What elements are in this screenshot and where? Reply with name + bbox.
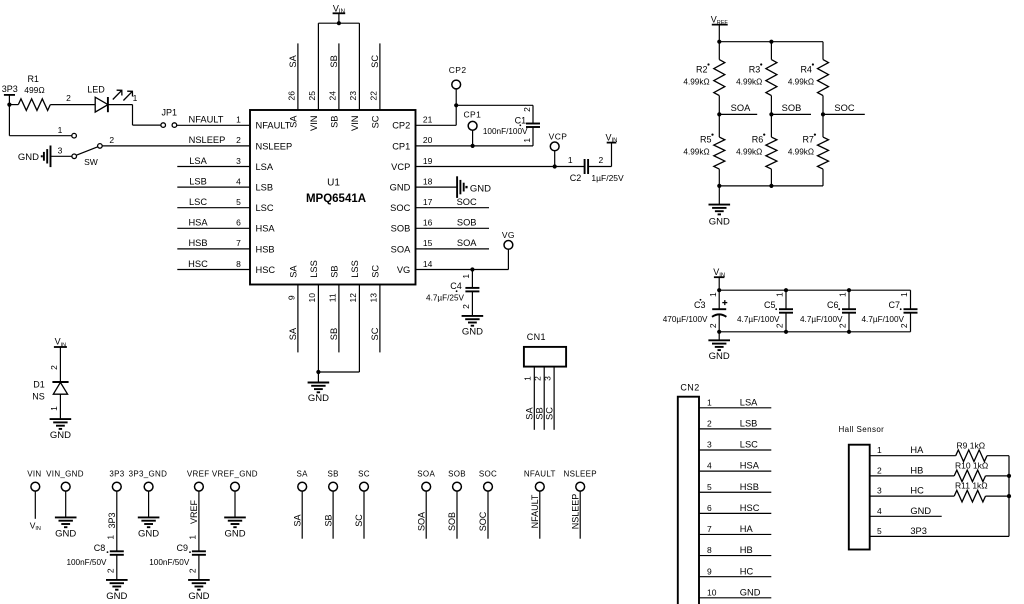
U1 pin11 SB stub <box>338 285 340 353</box>
node VIN junction above U1 <box>337 21 341 25</box>
svg-text:HSB: HSB <box>740 482 759 492</box>
switch SW pin1 contact <box>72 133 77 138</box>
svg-text:R1: R1 <box>27 74 39 84</box>
svg-text:R5: R5 <box>700 134 712 144</box>
wire U1 pin16 SOB stub <box>416 227 490 229</box>
wire R10 to 3P3 bus <box>986 475 1010 477</box>
U1 pin13 SC stub <box>379 285 381 353</box>
svg-text:HB: HB <box>910 465 923 475</box>
svg-text:14: 14 <box>423 259 433 269</box>
svg-text:2: 2 <box>522 107 532 112</box>
svg-text:SC: SC <box>370 327 380 340</box>
svg-text:NS: NS <box>32 391 45 401</box>
U1 pin12 LSS stub <box>358 285 360 373</box>
svg-text:17: 17 <box>423 197 433 207</box>
LED arrow 1 <box>113 90 122 99</box>
LED <box>95 97 108 112</box>
connector CN2 pin1 LSA <box>699 407 771 409</box>
svg-text:1: 1 <box>838 292 848 297</box>
svg-text:CP1: CP1 <box>464 110 482 120</box>
connector CN2 pin8 HB <box>699 555 771 557</box>
resistor R9 <box>956 450 987 462</box>
svg-text:MPQ6541A: MPQ6541A <box>306 193 366 205</box>
wire net HSB to U1 pin7 <box>177 248 250 250</box>
svg-text:2: 2 <box>188 568 198 573</box>
svg-text:2: 2 <box>236 135 241 145</box>
connector CN2 pin5 HSB <box>699 491 771 493</box>
resistor R6 <box>770 114 772 137</box>
svg-text:Hall Sensor: Hall Sensor <box>839 425 885 434</box>
svg-text:SB: SB <box>329 265 339 277</box>
connector CN2 pin10 GND <box>699 597 771 599</box>
svg-text:SOC: SOC <box>834 103 854 113</box>
svg-text:100nF/100V: 100nF/100V <box>483 127 528 136</box>
svg-text:VREF: VREF <box>189 500 199 525</box>
svg-text:GND: GND <box>55 529 76 540</box>
svg-text:3: 3 <box>58 146 63 156</box>
connector Hall pin4 GND stub <box>870 515 942 517</box>
svg-text:SA: SA <box>288 265 298 278</box>
svg-text:HSC: HSC <box>740 503 760 513</box>
svg-text:4.99kΩ: 4.99kΩ <box>736 77 762 86</box>
svg-text:GND: GND <box>740 587 761 597</box>
svg-text:GND: GND <box>18 152 39 163</box>
svg-text:GND: GND <box>224 529 245 540</box>
wire U1 pin14 VG <box>416 269 509 271</box>
svg-text:D1: D1 <box>33 380 45 390</box>
node LSS junction <box>316 370 320 374</box>
svg-text:SB: SB <box>327 469 338 478</box>
wire U1 pin15 SOA stub <box>416 248 490 250</box>
svg-text:U1: U1 <box>327 177 340 188</box>
svg-text:C5: C5 <box>764 300 776 310</box>
capacitor C3 polarized <box>718 290 720 309</box>
svg-text:VCP: VCP <box>391 162 410 172</box>
ground below U1 <box>317 372 319 383</box>
ground below divider <box>718 186 720 205</box>
svg-text:3P3: 3P3 <box>910 526 927 536</box>
svg-text:NSLEEP: NSLEEP <box>564 469 597 478</box>
svg-text:GND: GND <box>188 591 209 602</box>
svg-text:1: 1 <box>877 445 882 455</box>
svg-text:LSS: LSS <box>309 260 319 278</box>
svg-text:1: 1 <box>49 406 59 411</box>
connector CN1 pin3 SC <box>553 367 555 430</box>
svg-text:3: 3 <box>236 156 241 166</box>
svg-text:HSB: HSB <box>256 244 275 254</box>
wire CP2 to C1 <box>456 104 533 106</box>
svg-text:LSA: LSA <box>740 397 758 407</box>
svg-text:CN1: CN1 <box>527 332 546 342</box>
connector Hall pin3 HC wire <box>870 495 955 497</box>
svg-text:SB: SB <box>534 407 544 419</box>
node SOC divider <box>821 112 825 116</box>
wire top rail of divider <box>719 41 823 43</box>
svg-text:8: 8 <box>707 545 712 555</box>
capacitor C9 <box>192 550 206 552</box>
svg-text:C9: C9 <box>176 543 188 553</box>
svg-text:SA: SA <box>288 54 298 67</box>
svg-text:2: 2 <box>708 323 718 328</box>
svg-text:SOA: SOA <box>391 244 411 254</box>
svg-text:HSB: HSB <box>188 238 207 248</box>
svg-text:SOA: SOA <box>416 512 426 531</box>
svg-text:LSB: LSB <box>740 419 758 429</box>
diode D1 <box>52 381 68 383</box>
svg-text:470µF/100V: 470µF/100V <box>663 315 708 324</box>
svg-text:SOB: SOB <box>457 218 477 228</box>
svg-text:19: 19 <box>423 156 433 166</box>
wire cap bank top rail <box>719 289 910 291</box>
resistor R2 <box>718 42 720 60</box>
svg-text:HSC: HSC <box>256 265 276 275</box>
svg-text:R9 1kΩ: R9 1kΩ <box>957 440 986 450</box>
svg-text:R6: R6 <box>752 134 764 144</box>
svg-text:GND: GND <box>709 216 730 227</box>
wire bottom rail of divider <box>719 185 823 187</box>
svg-text:2: 2 <box>899 323 909 328</box>
svg-text:2: 2 <box>599 155 604 165</box>
svg-text:LED: LED <box>87 84 105 94</box>
wire C2 to VIN <box>588 166 611 168</box>
node VG junction <box>470 267 474 271</box>
svg-text:100nF/50V: 100nF/50V <box>66 558 107 567</box>
svg-text:GND: GND <box>470 183 491 194</box>
svg-text:NSLEEP: NSLEEP <box>256 141 293 151</box>
svg-text:CP2: CP2 <box>392 121 410 131</box>
connector CN2 pin7 HA <box>699 533 771 535</box>
svg-text:4.99kΩ: 4.99kΩ <box>736 148 762 157</box>
svg-text:SC: SC <box>370 115 380 128</box>
resistor R1 <box>9 104 18 106</box>
connector CN2 pin6 HSC <box>699 512 771 514</box>
svg-text:NSLEEP: NSLEEP <box>189 135 226 145</box>
wire VIN to D1 pin2 <box>59 347 61 382</box>
svg-text:2: 2 <box>461 304 471 309</box>
svg-text:LSS: LSS <box>350 260 360 278</box>
svg-text:SOC: SOC <box>457 197 477 207</box>
resistor R7 <box>822 114 824 137</box>
wire R9 to 3P3 bus <box>987 455 1009 457</box>
wire SOC stub <box>823 113 865 115</box>
svg-text:1: 1 <box>58 125 63 135</box>
svg-text:SC: SC <box>358 469 370 478</box>
svg-text:5: 5 <box>236 197 241 207</box>
svg-text:CN2: CN2 <box>680 382 699 392</box>
svg-text:SOA: SOA <box>417 469 435 478</box>
wire U1 pin19 VCP <box>416 166 585 168</box>
svg-text:NFAULT: NFAULT <box>530 494 540 528</box>
op-amp U1 MPQ6541A body <box>250 110 416 285</box>
svg-text:4.7µF/25V: 4.7µF/25V <box>426 293 464 302</box>
node SOB divider <box>769 112 773 116</box>
svg-text:GND: GND <box>709 351 730 362</box>
svg-text:C1: C1 <box>515 116 527 126</box>
svg-text:4.99kΩ: 4.99kΩ <box>683 77 709 86</box>
capacitor C7 <box>910 290 912 309</box>
svg-text:9: 9 <box>707 566 712 576</box>
svg-text:9: 9 <box>286 295 296 300</box>
svg-text:1: 1 <box>461 274 471 279</box>
svg-text:SC: SC <box>544 407 554 420</box>
svg-text:CP2: CP2 <box>449 65 467 75</box>
svg-text:3P3: 3P3 <box>109 469 124 478</box>
svg-text:SB: SB <box>329 55 339 67</box>
svg-text:VIN: VIN <box>333 3 345 15</box>
wire cap bank bottom rail <box>719 331 910 333</box>
wire U1 pin17 SOC stub <box>416 207 490 209</box>
svg-text:2: 2 <box>775 323 785 328</box>
svg-text:HSA: HSA <box>256 224 276 234</box>
svg-text:10: 10 <box>707 587 717 597</box>
svg-text:VCP: VCP <box>549 131 568 141</box>
test point CP2 <box>455 89 457 105</box>
connector Hall pin5 3P3 wire <box>870 535 1009 537</box>
svg-text:4.99kΩ: 4.99kΩ <box>683 148 709 157</box>
svg-text:C2: C2 <box>570 173 582 183</box>
svg-text:1: 1 <box>899 292 909 297</box>
svg-text:8: 8 <box>236 259 241 269</box>
svg-text:HC: HC <box>910 486 924 496</box>
svg-text:5: 5 <box>877 526 882 536</box>
svg-text:18: 18 <box>423 176 433 186</box>
svg-text:LSB: LSB <box>256 183 274 193</box>
svg-text:R4: R4 <box>800 64 812 74</box>
svg-text:20: 20 <box>423 135 433 145</box>
node 3P3 junction <box>7 103 11 107</box>
svg-text:SW: SW <box>84 157 98 167</box>
svg-text:4.7µF/100V: 4.7µF/100V <box>800 315 843 324</box>
svg-text:C3: C3 <box>694 300 706 310</box>
svg-text:GND: GND <box>390 183 411 193</box>
node R10 bus junction <box>1007 474 1011 478</box>
svg-text:SB: SB <box>329 328 339 340</box>
svg-text:3P3: 3P3 <box>107 512 117 528</box>
U1 pin25 VIN stub <box>317 23 319 110</box>
svg-text:2: 2 <box>106 568 116 573</box>
wire U1 pin21 CP2 <box>416 124 457 126</box>
svg-text:4.7µF/100V: 4.7µF/100V <box>737 315 780 324</box>
svg-text:25: 25 <box>307 91 317 101</box>
svg-text:23: 23 <box>348 91 358 101</box>
LED arrow 2 <box>123 91 132 100</box>
svg-text:1: 1 <box>568 155 573 165</box>
wire net LSB to U1 pin4 <box>177 186 250 188</box>
connector CN1 pin2 SB <box>543 367 545 430</box>
svg-text:GND: GND <box>50 430 71 441</box>
svg-text:100nF/50V: 100nF/50V <box>149 558 190 567</box>
node CP1 junction <box>471 144 475 148</box>
node SOA divider <box>717 112 721 116</box>
wire VREF to top rail <box>718 25 720 42</box>
svg-text:2: 2 <box>877 465 882 475</box>
node VCP junction <box>553 164 557 168</box>
svg-text:16: 16 <box>423 218 433 228</box>
svg-text:SB: SB <box>323 514 333 526</box>
svg-text:10: 10 <box>307 293 317 303</box>
svg-text:SOB: SOB <box>448 469 466 478</box>
wire 3P3 pull-up bus vertical <box>1008 456 1010 537</box>
svg-text:VIN: VIN <box>309 116 319 132</box>
wire 3P3 net vertical from power symbol <box>8 95 10 136</box>
U1 pin23 VIN stub <box>358 23 360 110</box>
svg-text:C4: C4 <box>450 281 462 291</box>
svg-text:1: 1 <box>236 115 241 125</box>
svg-text:SA: SA <box>525 407 535 420</box>
svg-text:13: 13 <box>368 293 378 303</box>
wire SOA stub <box>719 113 757 115</box>
connector CN2 pin2 LSB <box>699 428 771 430</box>
resistor R3 <box>770 42 772 60</box>
wire SOB stub <box>771 113 811 115</box>
wire JP1 to U1 pin1 NFAULT <box>177 124 250 126</box>
test point CP1 <box>472 130 474 146</box>
svg-text:HB: HB <box>740 545 753 555</box>
svg-text:LSC: LSC <box>740 440 758 450</box>
svg-text:NFAULT: NFAULT <box>256 121 291 131</box>
svg-text:R2: R2 <box>696 64 708 74</box>
wire net LSC to U1 pin5 <box>177 207 250 209</box>
wire net HSA to U1 pin6 <box>177 227 250 229</box>
svg-text:R10 1kΩ: R10 1kΩ <box>955 460 988 470</box>
svg-text:LSC: LSC <box>189 197 207 207</box>
svg-text:LSC: LSC <box>256 203 274 213</box>
svg-text:1: 1 <box>133 93 138 103</box>
capacitor C6 <box>848 290 850 309</box>
U1 pin9 SA stub <box>297 285 299 353</box>
connector CN2 pin4 HSA <box>699 470 771 472</box>
capacitor C8 <box>110 550 124 552</box>
svg-text:LSB: LSB <box>189 176 207 186</box>
svg-text:NFAULT: NFAULT <box>524 469 556 478</box>
resistor R4 <box>822 42 824 60</box>
node R11 bus junction <box>1007 494 1011 498</box>
svg-text:3: 3 <box>707 440 712 450</box>
svg-text:SOB: SOB <box>447 512 457 531</box>
wire D1 pin1 to ground <box>59 394 61 419</box>
svg-text:22: 22 <box>368 91 378 101</box>
svg-text:SA: SA <box>292 514 302 526</box>
U1 pin24 SB stub <box>338 43 340 110</box>
svg-text:4: 4 <box>877 506 882 516</box>
svg-text:VIN: VIN <box>605 132 617 144</box>
resistor R11 <box>954 490 985 502</box>
svg-text:LSA: LSA <box>189 156 207 166</box>
svg-text:24: 24 <box>327 91 337 101</box>
svg-text:C8: C8 <box>94 543 106 553</box>
svg-text:VG: VG <box>502 230 515 240</box>
svg-text:GND: GND <box>462 326 483 337</box>
svg-text:C7: C7 <box>888 300 900 310</box>
svg-text:HA: HA <box>740 524 754 534</box>
ground below C8 <box>106 580 128 590</box>
svg-text:SC: SC <box>370 55 380 68</box>
node CP2 junction <box>454 103 458 107</box>
wire ground to switch pin3 <box>51 155 72 157</box>
capacitor C4 <box>471 270 473 288</box>
ground below D1 <box>50 419 72 429</box>
svg-text:VREF_GND: VREF_GND <box>212 469 258 478</box>
svg-text:1: 1 <box>707 397 712 407</box>
U1 pin10 LSS stub <box>317 285 319 373</box>
svg-text:GND: GND <box>910 506 931 516</box>
capacitor C1 <box>526 123 540 125</box>
wire R1 to LED pin2 <box>50 104 95 106</box>
power symbol VIN at C2 <box>607 142 617 144</box>
ground at 3P3_GND <box>138 517 160 527</box>
svg-text:C6: C6 <box>827 300 839 310</box>
wire net LSA to U1 pin3 <box>177 166 250 168</box>
test point VCP <box>554 151 556 167</box>
svg-text:12: 12 <box>348 293 358 303</box>
svg-text:2: 2 <box>707 419 712 429</box>
svg-text:2: 2 <box>66 93 71 103</box>
svg-text:1: 1 <box>188 535 198 540</box>
wire 3P3 to switch pin1 <box>9 135 71 137</box>
svg-text:3P3: 3P3 <box>2 84 18 94</box>
switch SW <box>72 154 77 159</box>
svg-text:R3: R3 <box>749 64 761 74</box>
wire net HSC to U1 pin8 <box>177 269 250 271</box>
svg-text:5: 5 <box>707 482 712 492</box>
ground below C9 <box>188 580 210 590</box>
svg-text:VIN: VIN <box>30 520 41 532</box>
svg-text:GND: GND <box>106 591 127 602</box>
svg-text:SOA: SOA <box>457 238 477 248</box>
svg-text:R7: R7 <box>802 134 814 144</box>
U1 pin22 SC stub <box>379 43 381 110</box>
svg-text:NFAULT: NFAULT <box>189 115 224 125</box>
svg-text:SOC: SOC <box>479 469 497 478</box>
svg-text:4: 4 <box>707 461 712 471</box>
svg-text:VREF: VREF <box>187 469 210 478</box>
svg-text:6: 6 <box>707 503 712 513</box>
connector Hall pin1 HA wire <box>870 455 956 457</box>
ground below cap bank <box>718 332 720 341</box>
svg-text:GND: GND <box>308 393 329 404</box>
resistor R10 <box>954 470 985 482</box>
svg-text:SOA: SOA <box>731 103 751 113</box>
svg-text:SA: SA <box>288 327 298 340</box>
svg-text:7: 7 <box>236 238 241 248</box>
svg-text:SA: SA <box>288 115 298 128</box>
svg-text:SOB: SOB <box>391 224 411 234</box>
capacitor C5 <box>785 290 787 309</box>
svg-text:1: 1 <box>523 376 533 381</box>
svg-text:1: 1 <box>708 292 718 297</box>
svg-text:SOB: SOB <box>782 103 802 113</box>
svg-text:HSC: HSC <box>188 259 208 269</box>
svg-text:4: 4 <box>236 176 241 186</box>
svg-text:3: 3 <box>543 376 553 381</box>
svg-text:15: 15 <box>423 238 433 248</box>
ground at VIN_GND <box>55 517 77 527</box>
wire VIN tie pins 25-23 <box>318 22 359 24</box>
wire U1 pin18 GND <box>416 186 458 188</box>
svg-text:6: 6 <box>236 218 241 228</box>
U1 pin26 SA stub <box>297 43 299 110</box>
svg-text:HC: HC <box>740 566 754 576</box>
svg-text:3: 3 <box>877 486 882 496</box>
svg-text:VIN_GND: VIN_GND <box>46 469 84 478</box>
svg-text:HSA: HSA <box>740 461 760 471</box>
svg-text:JP1: JP1 <box>162 107 178 117</box>
wire LED pin1 to JP1 <box>108 104 133 106</box>
connector CN1 pin1 SA <box>533 367 535 430</box>
svg-text:NSLEEP: NSLEEP <box>570 494 580 530</box>
svg-text:21: 21 <box>423 115 433 125</box>
svg-text:2: 2 <box>49 365 59 370</box>
